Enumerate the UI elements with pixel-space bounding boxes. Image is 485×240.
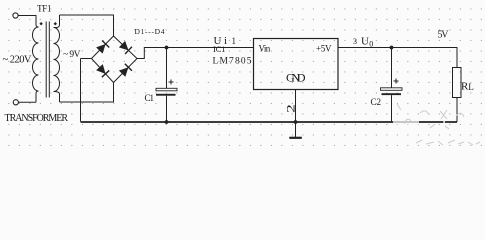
svg-text:~ 9V: ~ 9V — [63, 50, 81, 60]
svg-text:D1---D4: D1---D4 — [135, 27, 165, 36]
node: C1 bottom junction — [165, 120, 169, 124]
node: regulator ground junction — [294, 120, 298, 124]
regulator U1 LM7805 box — [254, 39, 339, 90]
wire: regulator output to load — [338, 48, 457, 68]
terminal J2 bottom input circle — [13, 100, 18, 105]
svg-text:C2: C2 — [371, 97, 382, 107]
capacitor C2 — [371, 48, 403, 123]
svg-text:U: U — [361, 35, 369, 47]
wire: 9V node stub to bridge left vertex — [81, 58, 92, 60]
svg-text:Vin: Vin — [259, 43, 271, 53]
diode D2 top-right — [119, 41, 132, 54]
watermark — [397, 104, 480, 145]
svg-text:1: 1 — [232, 36, 237, 46]
wire: bottom input circle to primary bottom — [18, 101, 36, 103]
resistor RL — [453, 68, 474, 123]
svg-text:~ 220V: ~ 220V — [3, 55, 32, 66]
ground symbol — [289, 137, 302, 139]
wire: secondary bottom to bridge bottom vertex — [60, 83, 114, 103]
wire: top input circle to primary top — [18, 16, 36, 25]
transformer TF1 primary winding — [33, 16, 39, 103]
wire: bridge right vertex to top rail — [137, 48, 254, 59]
wire: DC minus drop from left vertex to bottom rail — [80, 59, 82, 122]
svg-text:IC1: IC1 — [213, 44, 226, 54]
svg-text:C1: C1 — [145, 93, 155, 103]
node: C1 top junction — [165, 46, 169, 50]
diode D3 bottom-left — [96, 64, 109, 77]
diode D1 top-left — [96, 41, 109, 54]
node: C2 top junction — [390, 46, 394, 50]
terminal J1 top input circle — [13, 13, 18, 18]
rail fade (scan artifact) — [393, 120, 419, 125]
svg-text:+5V: +5V — [316, 43, 332, 53]
transformer TF1 secondary winding — [54, 15, 60, 102]
polarity dot secondary — [54, 22, 57, 25]
svg-text:3: 3 — [353, 37, 357, 46]
bridge rectifier diamond D1--D4 — [92, 36, 138, 83]
wire: bottom rail DC minus — [81, 121, 458, 123]
svg-text:TRANSFORMER: TRANSFORMER — [5, 113, 69, 124]
wire: secondary top to bridge top vertex — [60, 15, 114, 36]
polarity dot primary — [39, 22, 42, 25]
svg-text:TF1: TF1 — [37, 4, 52, 14]
svg-text:GND: GND — [286, 71, 306, 85]
svg-text:2: 2 — [285, 104, 298, 113]
diode D4 bottom-right — [119, 64, 132, 77]
svg-text:0: 0 — [369, 40, 373, 49]
capacitor C1 — [145, 48, 178, 123]
transformer TF1 core — [45, 22, 47, 98]
svg-text:5V: 5V — [438, 29, 450, 40]
wire: regulator GND pin to ground — [295, 90, 297, 138]
svg-text:L: L — [468, 82, 474, 92]
